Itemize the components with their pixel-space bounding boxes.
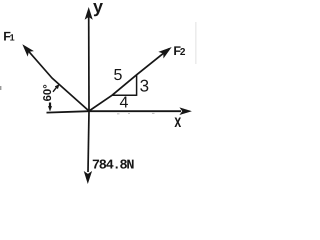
scan artifact: right edge faint line [195, 22, 198, 64]
scan artifact: left edge mark [0, 86, 1, 90]
svg-text:F2: F2 [173, 44, 185, 58]
svg-text:F1: F1 [3, 30, 14, 44]
slope triangle [112, 75, 137, 96]
svg-text:784.8N: 784.8N [92, 159, 135, 174]
weight vector 784.8N [84, 111, 91, 183]
angle leader 60 deg lower arrow [48, 103, 51, 112]
x-axis [47, 108, 191, 115]
svg-text:60°: 60° [42, 84, 54, 102]
svg-text:4: 4 [120, 95, 129, 112]
svg-text:5: 5 [114, 67, 123, 84]
angle leader 60 deg upper arrow [53, 84, 59, 92]
y-axis [85, 8, 92, 111]
force vector F1 [23, 45, 89, 111]
force vector F2 [89, 48, 171, 111]
scan artifact: speckles under x-axis [117, 113, 155, 114]
svg-text:x: x [174, 111, 181, 131]
svg-text:y: y [93, 0, 103, 17]
svg-text:3: 3 [140, 76, 149, 95]
